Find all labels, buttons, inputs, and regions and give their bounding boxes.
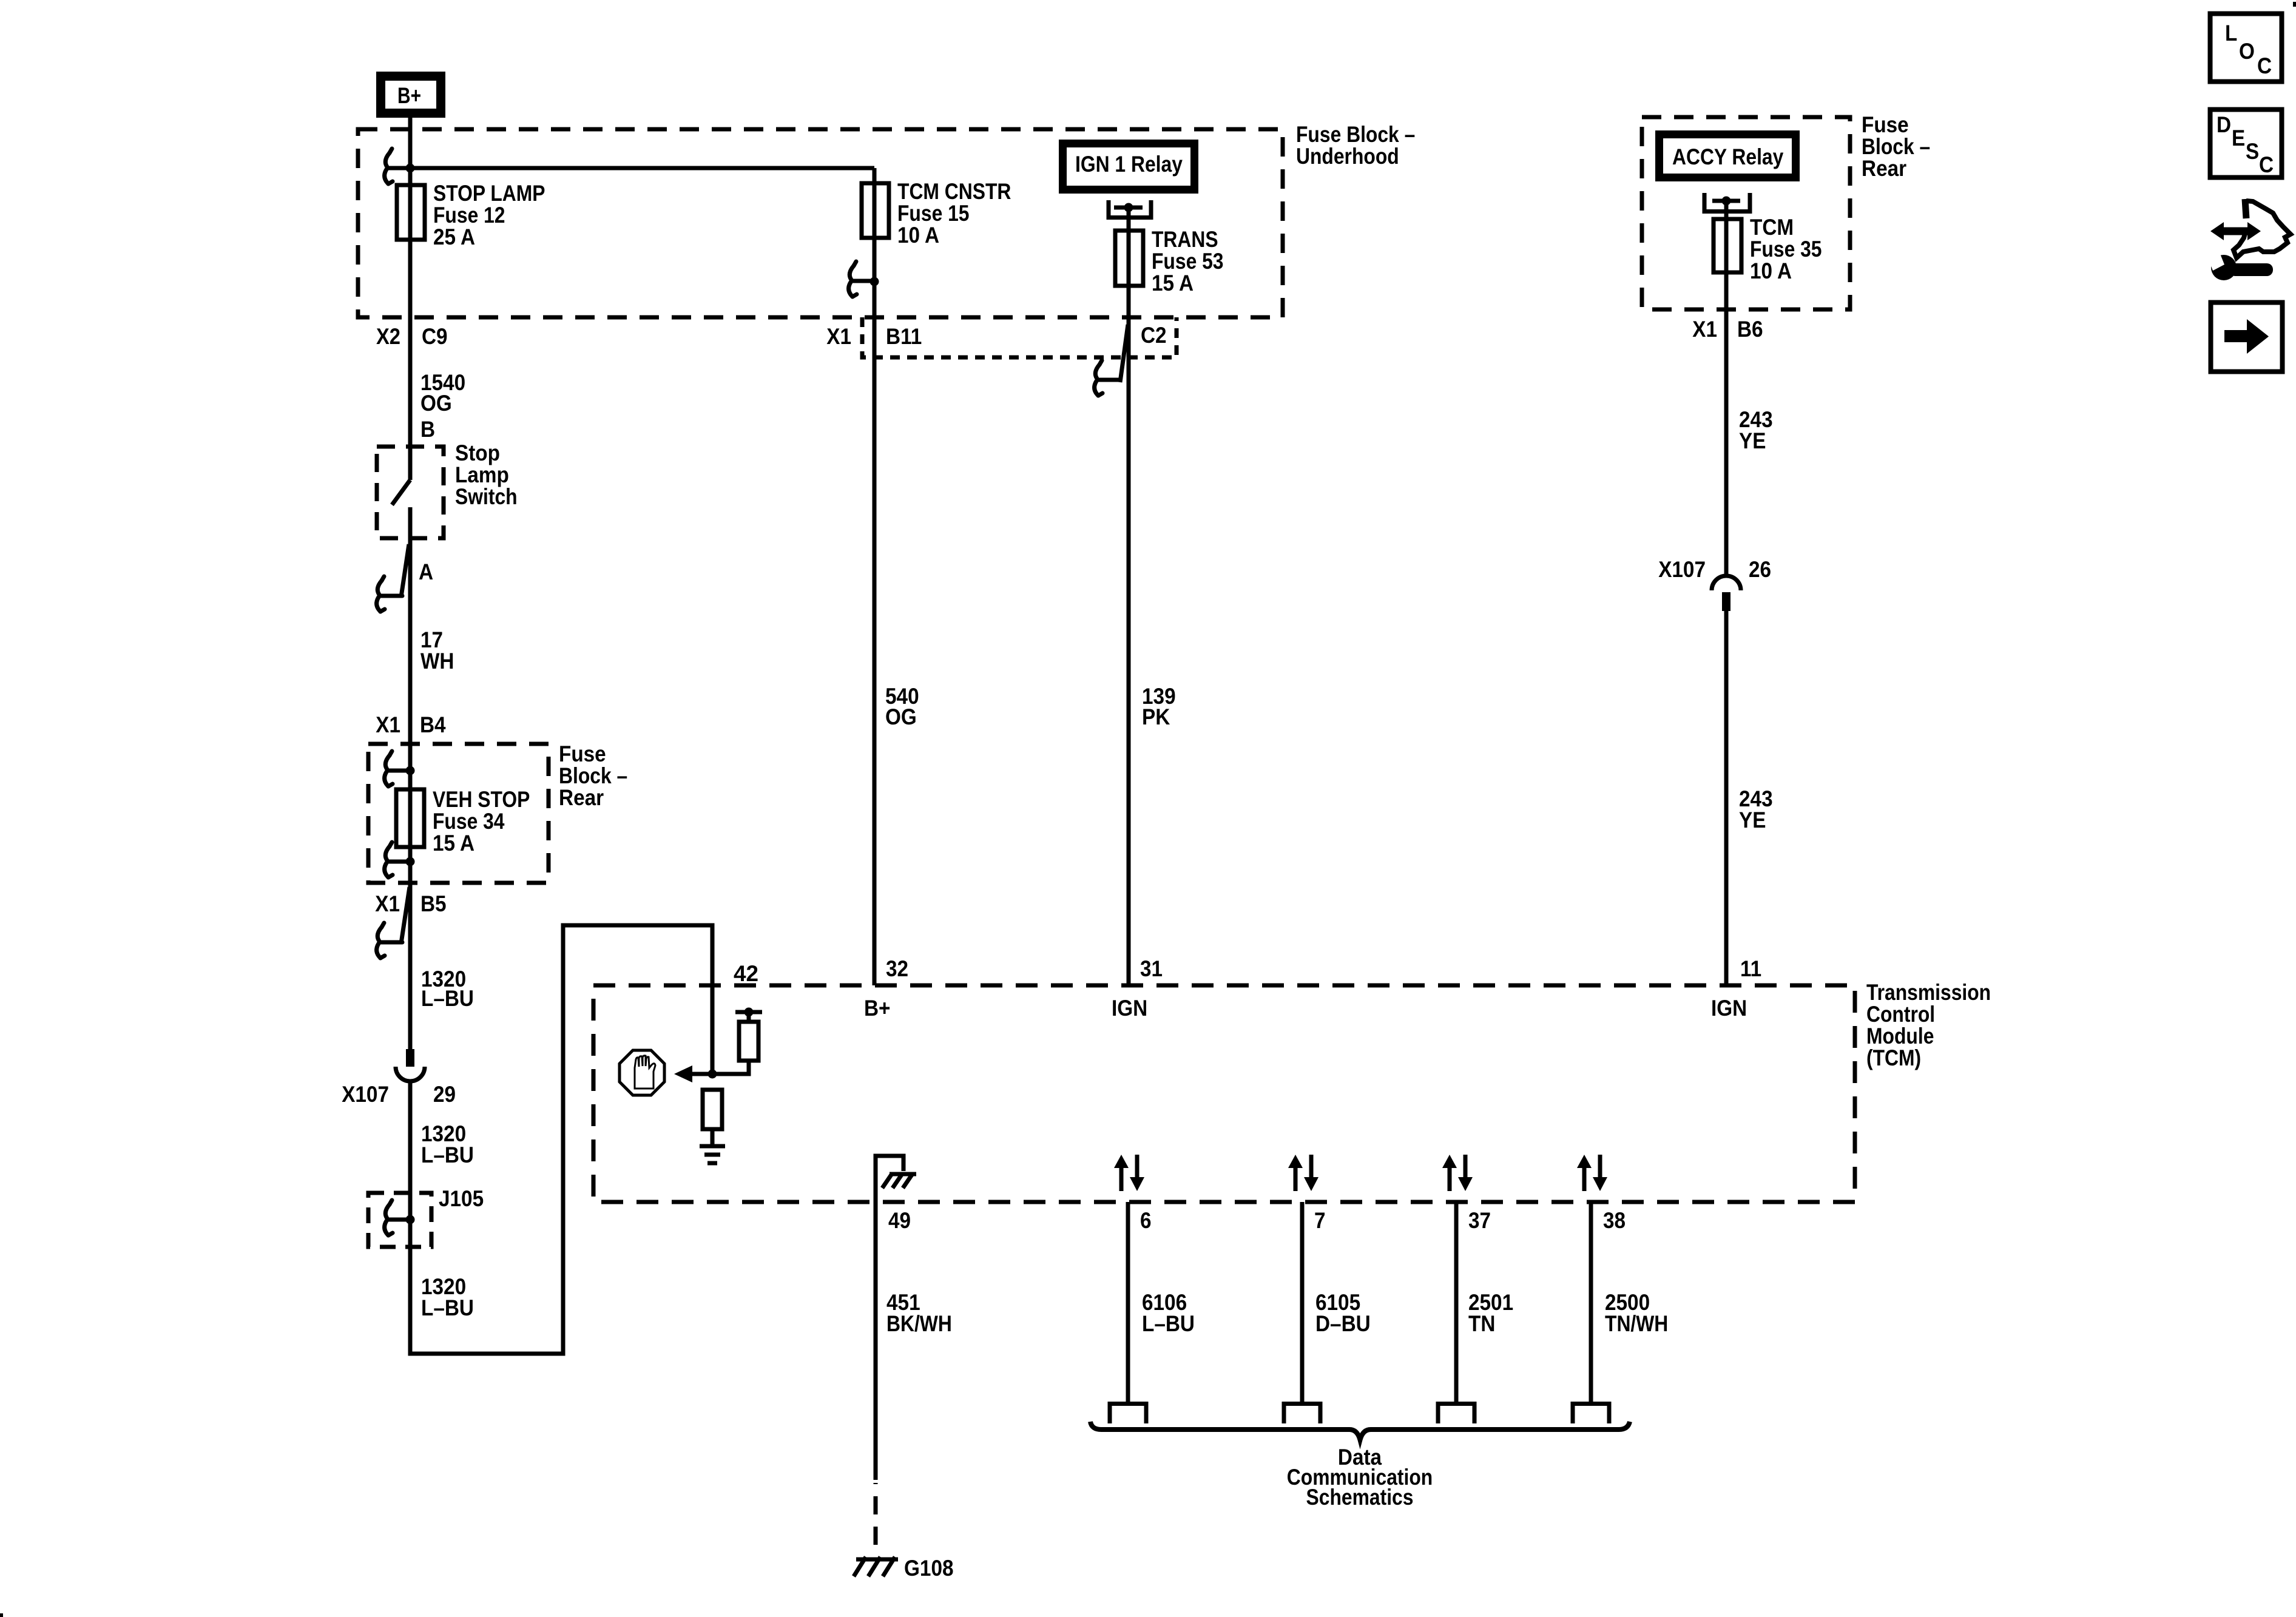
svg-text:X1: X1 [1692,317,1717,342]
node junction above fuse 34 [406,766,415,775]
ground label G108 [904,1556,954,1581]
terminal hook above fuse 34 [385,751,410,786]
svg-text:C: C [2259,152,2274,177]
svg-text:Underhood: Underhood [1296,144,1399,169]
wire serial data pin 38 [1589,1202,1593,1402]
svg-text:ACCY Relay: ACCY Relay [1672,144,1784,169]
splice J105 dashed box [368,1186,484,1247]
svg-text:Module: Module [1866,1024,1934,1048]
ground internal (signal ground) [700,1146,725,1163]
svg-text:OG: OG [420,391,452,416]
wire R2 to ground [711,1129,715,1144]
data link arrows pin 37 [1442,1155,1473,1191]
wire label 451 BK/WH [886,1290,952,1336]
svg-text:PK: PK [1142,704,1170,729]
ground pin 49 chassis symbol [876,1156,916,1202]
fuse F15 TCM CNSTR [862,179,1011,248]
svg-text:11: 11 [1740,956,1761,981]
svg-text:Control: Control [1866,1002,1935,1027]
node junction below fuse 34 [406,857,415,866]
wire label 1320 L-BU [421,967,474,1011]
connector label X1 B6 [1692,317,1763,342]
terminal hook at fuse 12 feed [385,149,410,184]
fuse F53 TRANS [1115,227,1224,295]
svg-text:Transmission: Transmission [1866,980,1991,1005]
wire switch to fuse 34 [408,507,413,1049]
svg-text:25 A: 25 A [433,224,475,249]
connector label X1 B11 [826,324,922,349]
icon next arrow box [2211,303,2283,372]
pin label 11 [1740,956,1761,981]
data link arrows pin 6 [1114,1155,1144,1191]
svg-text:TN: TN [1468,1311,1495,1336]
svg-text:L–BU: L–BU [421,1143,474,1167]
svg-text:B+: B+ [397,83,421,108]
fuse block underhood dashed box [358,129,1283,317]
terminal label A [419,559,433,584]
svg-text:Fuse 12: Fuse 12 [433,203,505,228]
svg-text:YE: YE [1739,808,1766,832]
serial data arrow [674,1065,712,1082]
stop lamp switch S1 dashed box [377,441,518,538]
wire fuse 15 to TCM pin 32 [873,168,877,985]
svg-text:37: 37 [1468,1208,1491,1233]
svg-text:38: 38 [1603,1208,1626,1233]
pin label 6 [1140,1208,1152,1233]
wire fuse 53 to TCM pin 31 [1127,286,1131,985]
svg-text:49: 49 [888,1208,911,1233]
terminal hook below fuse 15 [849,262,874,297]
pin name IGN (2) [1711,996,1747,1021]
svg-text:X1: X1 [376,712,400,737]
svg-text:6: 6 [1140,1208,1152,1233]
wire label 17 WH [420,627,454,673]
ground G108 [854,1557,898,1576]
connector label X107 26 [1658,557,1771,582]
wire serial data pin 7 [1300,1202,1305,1402]
fuse block rear dashed box (right) [1642,112,1930,309]
page mark top right [2293,2,2296,7]
svg-text:15 A: 15 A [1152,271,1194,295]
wire label 243 YE [1739,407,1773,453]
svg-text:Fuse 35: Fuse 35 [1750,237,1822,262]
wire serial data pin 37 [1454,1202,1459,1402]
svg-text:Block –: Block – [1862,134,1930,159]
hand icon octagon [620,1050,664,1095]
data link arrows pin 7 [1288,1155,1319,1191]
wire X107 to bottom bend [410,1081,566,1354]
resistor R2 pull-down [703,1090,722,1129]
terminal pin 6 [1110,1404,1146,1424]
svg-text:(TCM): (TCM) [1866,1045,1921,1070]
wire serial data pin 6 [1126,1202,1130,1402]
terminal pin 37 [1438,1404,1474,1424]
relay pin bracket IGN 1 [1109,200,1151,286]
connector terminal at B5 [377,887,410,958]
svg-text:TRANS: TRANS [1152,227,1218,252]
icon DESC box [2210,110,2282,178]
connector label X1 B5 [375,891,446,916]
terminal pin 7 [1284,1404,1320,1424]
svg-text:Fuse 34: Fuse 34 [433,809,505,834]
svg-text:L–BU: L–BU [421,1295,474,1320]
wire X107 to TCM pin 11 [1724,611,1729,985]
svg-text:26: 26 [1749,557,1771,582]
svg-text:31: 31 [1140,956,1163,981]
svg-text:J105: J105 [439,1186,484,1211]
svg-text:Fuse 53: Fuse 53 [1152,249,1224,274]
svg-text:Schematics: Schematics [1306,1485,1414,1510]
svg-text:WH: WH [420,649,454,673]
pin label 7 [1314,1208,1326,1233]
icon diagnostic hand tool [2208,199,2291,280]
node junction below fuse 15 [870,277,879,286]
svg-text:X2: X2 [376,324,400,349]
connector label X2 C9 [376,324,448,349]
svg-text:B6: B6 [1737,317,1763,342]
svg-text:TCM: TCM [1750,215,1794,240]
svg-text:VEH STOP: VEH STOP [433,787,530,812]
svg-text:29: 29 [433,1082,456,1107]
svg-text:C9: C9 [422,324,448,349]
node 42 junction [708,1070,717,1079]
terminal label B [420,417,435,442]
svg-text:S: S [2246,139,2259,164]
TCM module dashed box [593,985,1855,1202]
svg-text:Rear: Rear [559,785,604,810]
label transmission control module [1866,980,1991,1070]
svg-text:IGN 1 Relay: IGN 1 Relay [1075,152,1183,177]
wire label 6106 L-BU [1142,1290,1195,1336]
label fuse block underhood [1296,122,1415,169]
pin label 31 [1140,956,1163,981]
wire label 2500 TN/WH [1605,1290,1668,1336]
pin name B+ [864,996,891,1021]
resistor R1 pull-up [739,1022,758,1061]
svg-text:15 A: 15 A [433,831,474,856]
fuse F35 TCM [1714,215,1822,283]
connector label X1 B4 [376,712,446,737]
wire label 243 YE (2) [1739,786,1773,832]
wire B+ feed [408,118,413,480]
svg-text:Fuse: Fuse [559,741,606,766]
brace data communication [1090,1422,1630,1440]
fuse F12 STOP LAMP [397,181,545,249]
label data communication schematics [1287,1445,1433,1510]
connector dotted box X1 row [862,317,1177,357]
node splice J105 [406,1215,415,1224]
svg-text:X1: X1 [375,891,400,916]
svg-text:Rear: Rear [1862,156,1906,181]
svg-text:B11: B11 [886,324,922,349]
wire label 6105 D-BU [1315,1290,1371,1336]
svg-text:Lamp: Lamp [455,462,509,487]
svg-text:X107: X107 [342,1082,389,1107]
wire fuse 35 to X107 [1724,272,1729,577]
svg-text:B4: B4 [420,712,446,737]
terminal hook at J105 [385,1200,410,1235]
svg-text:32: 32 [886,956,908,981]
fuse block rear dashed box (left) [368,741,627,883]
wire B+ to TCM CNSTR fuse [410,166,874,170]
pin label 49 [888,1208,911,1233]
svg-text:10 A: 10 A [1750,258,1792,283]
relay K1 IGN 1 Relay box [1063,144,1195,190]
svg-text:G108: G108 [904,1556,954,1581]
switch blade [392,480,410,505]
svg-text:E: E [2232,126,2245,150]
svg-text:A: A [419,559,433,584]
svg-text:TN/WH: TN/WH [1605,1311,1668,1336]
svg-text:B5: B5 [420,891,447,916]
svg-text:Fuse: Fuse [1862,112,1909,137]
svg-text:L–BU: L–BU [421,986,474,1011]
pin name IGN [1112,996,1147,1021]
icon LOC box [2210,14,2282,82]
wire 451 to G108 [874,1202,878,1557]
svg-text:BK/WH: BK/WH [886,1311,952,1336]
svg-text:D: D [2217,112,2231,137]
wire R1 to node 42 [714,1061,749,1074]
inline connector X107 pin 29 [396,1049,425,1081]
connector label X107 29 [342,1082,456,1107]
terminal hook below fuse 34 [385,842,410,877]
internal supply bar [735,1008,762,1022]
svg-text:L: L [2225,21,2237,46]
inline connector X107 pin 26 [1712,576,1741,611]
relay pin bracket ACCY [1704,193,1750,272]
pin label 38 [1603,1208,1626,1233]
wire label 1320 L-BU (2) [421,1121,474,1167]
svg-text:10 A: 10 A [897,223,939,248]
connector terminal at A [377,544,409,612]
svg-text:C: C [2257,53,2272,78]
pin label 32 [886,956,908,981]
pin label 37 [1468,1208,1491,1233]
svg-text:YE: YE [1739,428,1766,453]
svg-text:TCM CNSTR: TCM CNSTR [897,179,1011,204]
svg-text:Stop: Stop [455,441,500,465]
svg-text:7: 7 [1314,1208,1326,1233]
svg-text:Switch: Switch [455,484,518,509]
svg-text:Block –: Block – [559,763,627,788]
fuse F34 VEH STOP [396,787,530,856]
svg-text:OG: OG [885,704,917,729]
connector terminal at C2 [1095,325,1128,396]
wire label 2501 TN [1468,1290,1513,1336]
svg-text:Fuse Block –: Fuse Block – [1296,122,1415,147]
wire label 540 OG [885,684,919,729]
svg-text:STOP LAMP: STOP LAMP [433,181,545,206]
wire label 1320 L-BU (3) [421,1274,474,1320]
svg-text:B: B [420,417,435,442]
svg-text:IGN: IGN [1711,996,1747,1021]
svg-text:IGN: IGN [1112,996,1147,1021]
svg-text:X1: X1 [826,324,851,349]
svg-text:O: O [2239,39,2255,64]
pin label 42 [734,961,758,986]
svg-text:L–BU: L–BU [1142,1311,1195,1336]
svg-text:42: 42 [734,961,758,986]
svg-text:X107: X107 [1658,557,1706,582]
wire label 1540 OG [420,370,465,416]
svg-text:B+: B+ [864,996,891,1021]
relay K2 ACCY Relay box [1660,135,1796,178]
wire bend up to pin 42 [563,925,712,1354]
connector label C2 [1141,323,1167,348]
svg-text:Fuse 15: Fuse 15 [897,201,970,226]
node junction at fuse 12 [406,164,415,173]
wire label 139 PK [1142,684,1176,729]
page mark bottom left [0,1613,3,1617]
terminal pin 38 [1573,1404,1609,1424]
data link arrows pin 38 [1577,1155,1607,1191]
svg-text:C2: C2 [1141,323,1167,348]
svg-text:D–BU: D–BU [1315,1311,1371,1336]
B+ power symbol [381,76,441,113]
